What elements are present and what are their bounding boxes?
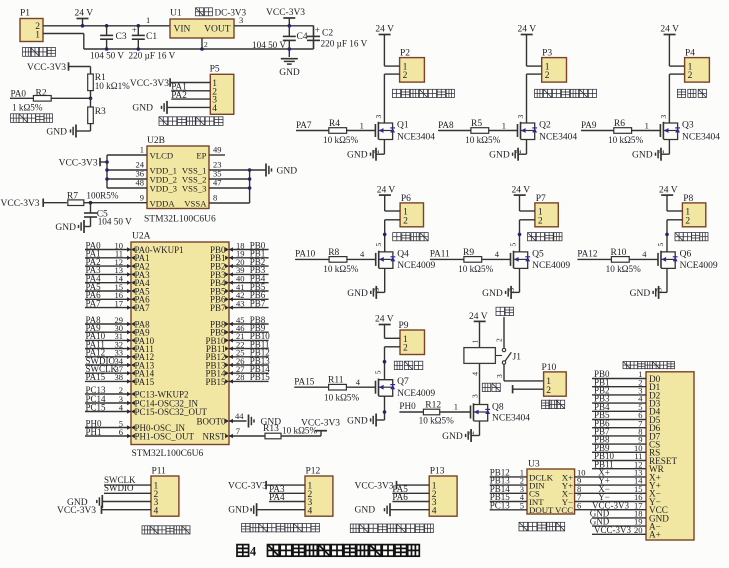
ground (Q5) — [482, 286, 511, 299]
svg-text:Q5: Q5 — [532, 249, 544, 259]
power VCC-3V3 (P13 pin1) — [355, 481, 430, 492]
svg-text:R6: R6 — [614, 119, 625, 129]
resistor R13 — [263, 424, 321, 439]
wire P4 pin2 to Q3 drain — [659, 74, 685, 123]
svg-text:1 kΩ5%: 1 kΩ5% — [12, 103, 43, 113]
wire net PA4 to P12 pin3 — [269, 492, 305, 502]
svg-text:2: 2 — [495, 338, 504, 342]
wire net PB1 to LCD pin 2 — [592, 377, 646, 387]
wire P3 pin1 — [527, 65, 542, 67]
svg-text:VCC: VCC — [555, 505, 573, 515]
svg-text:U3: U3 — [528, 460, 540, 470]
wire net PB12 to U3 pin 1 — [490, 468, 527, 478]
connector P11 — [151, 467, 179, 517]
wire Q7 source — [376, 396, 386, 420]
svg-text:GND: GND — [489, 151, 510, 161]
wire Q6 source — [655, 268, 668, 292]
svg-text:BOOT0: BOOT0 — [197, 416, 226, 426]
wire net PH0 to R12 — [399, 401, 423, 412]
wire net PA8 to R5 — [438, 120, 471, 131]
svg-text:10 kΩ5%: 10 kΩ5% — [323, 264, 358, 274]
svg-text:Q1: Q1 — [397, 121, 409, 131]
wire P6 pin1 — [385, 210, 400, 212]
wire net PA8 to U2A pin 29 — [85, 315, 135, 326]
svg-text:VIN: VIN — [174, 25, 191, 35]
svg-text:PC15-OSC32_OUT: PC15-OSC32_OUT — [135, 407, 208, 417]
svg-text:PA7: PA7 — [296, 120, 312, 130]
wire U3 Y+ to LCD pin 14 — [575, 476, 646, 486]
svg-text:4: 4 — [471, 372, 480, 376]
svg-text:R2: R2 — [36, 89, 47, 99]
caption 图4 盐酸氨气试验箱电路原理图 — [237, 544, 419, 558]
label 湿度传感器 — [11, 114, 53, 123]
wire net VCC-3V3 to LCD pin 20 — [592, 525, 646, 535]
resistor R5 — [465, 119, 517, 145]
transistor Q4 NCE4009 — [376, 249, 436, 271]
svg-text:GND: GND — [347, 151, 368, 161]
resistor R12 — [419, 400, 471, 425]
wire net PA1 to U2A pin 11 — [85, 249, 135, 260]
svg-text:5: 5 — [656, 243, 665, 247]
wire net PA5 to U2A pin 15 — [85, 282, 135, 293]
svg-text:VSSA: VSSA — [184, 198, 207, 208]
capacitor C4 — [252, 26, 308, 50]
transistor Q1 NCE3404 — [375, 121, 435, 143]
svg-text:NCE4009: NCE4009 — [680, 261, 718, 271]
wire net PB7 from U2A pin 43 — [225, 298, 269, 309]
svg-text:NCE3404: NCE3404 — [682, 132, 720, 142]
wire PA1 to P5 pin2 — [171, 82, 210, 92]
wire U1 VOUT to VCC rail — [234, 26, 314, 49]
svg-text:NRST: NRST — [202, 431, 226, 441]
svg-text:104 50 V: 104 50 V — [98, 216, 132, 226]
ground (R3) — [46, 125, 90, 138]
svg-text:4: 4 — [642, 249, 647, 259]
svg-text:GND: GND — [347, 416, 368, 426]
svg-text:P11: P11 — [152, 467, 167, 477]
svg-text:R12: R12 — [425, 400, 441, 410]
transistor Q3 NCE3404 — [660, 121, 720, 143]
svg-text:P4: P4 — [685, 49, 695, 59]
wire net PB8 from U2A pin 45 — [225, 315, 269, 326]
wire net PA6 to P13 pin3 — [392, 492, 429, 502]
svg-text:10 kΩ5%: 10 kΩ5% — [323, 135, 358, 145]
wire Q3 source — [657, 140, 670, 155]
wire Q4 source — [372, 268, 385, 292]
wire net GND to LCD pin 19 — [590, 517, 646, 527]
svg-text:2: 2 — [538, 216, 543, 226]
svg-text:1: 1 — [360, 120, 364, 130]
svg-text:24 V: 24 V — [659, 186, 678, 196]
wire VCC rail to U2B VDD pins — [105, 155, 147, 188]
svg-text:R4: R4 — [329, 119, 340, 129]
transistor Q5 NCE4009 — [511, 249, 571, 271]
wire P3 pin2 to Q2 drain — [516, 74, 542, 123]
svg-text:PH1-OSC_OUT: PH1-OSC_OUT — [135, 431, 195, 441]
svg-text:J1: J1 — [513, 353, 522, 363]
power VCC-3V3 (R1) — [27, 62, 91, 73]
connector P6 — [400, 194, 423, 227]
svg-text:1: 1 — [471, 340, 480, 344]
power VCC-3V3 (U2B) — [59, 158, 107, 169]
svg-text:U1: U1 — [170, 9, 182, 19]
wire net PA11 to R9 — [430, 249, 464, 260]
wire net PB11 from U2A pin 22 — [225, 339, 269, 350]
ground main GND — [279, 49, 300, 78]
svg-text:2: 2 — [685, 216, 690, 226]
connector P12 — [305, 467, 333, 517]
svg-text:VOUT: VOUT — [204, 25, 231, 35]
wire net GND to LCD pin 18 — [590, 509, 646, 519]
wire Q2 source — [514, 140, 527, 155]
wire net PB4 to LCD pin 5 — [592, 402, 646, 412]
transistor Q8 NCE3404 — [471, 402, 531, 423]
svg-text:GND: GND — [632, 151, 653, 161]
wire U3 X− to LCD pin 15 — [575, 484, 646, 494]
svg-text:VCC-3V3: VCC-3V3 — [27, 63, 66, 73]
wire U2A BOOT0 pin 44 to ground — [225, 411, 246, 423]
svg-text:220 µF 16 V: 220 µF 16 V — [321, 38, 368, 48]
junction dots top rail — [81, 24, 140, 28]
svg-text:EP: EP — [196, 150, 206, 160]
svg-text:PA10: PA10 — [295, 249, 315, 259]
svg-text:3: 3 — [471, 394, 480, 398]
svg-text:R5: R5 — [471, 119, 482, 129]
svg-text:GND: GND — [482, 289, 503, 299]
label 盐酸浓度传感器模块 — [350, 524, 433, 533]
switch J1 — [495, 348, 521, 364]
svg-text:PA15: PA15 — [135, 377, 155, 387]
svg-text:+: + — [132, 25, 137, 35]
relay coil K1 — [464, 348, 496, 364]
svg-text:VSS_3: VSS_3 — [182, 183, 207, 193]
svg-text:P12: P12 — [306, 467, 321, 477]
svg-text:2: 2 — [403, 216, 408, 226]
svg-text:1: 1 — [140, 145, 144, 155]
resistor R2 (PA0) — [10, 88, 91, 112]
svg-text:10 kΩ5%: 10 kΩ5% — [465, 135, 500, 145]
label 火线 — [496, 307, 514, 315]
svg-text:4: 4 — [154, 506, 159, 516]
ground (Q4) — [347, 286, 376, 299]
wire net PB5 to LCD pin 6 — [592, 410, 646, 420]
svg-text:PA7: PA7 — [135, 303, 151, 313]
wire U3 X+ to LCD pin 13 — [575, 468, 646, 478]
label 程序烧录接口 — [142, 526, 190, 534]
label 氨气浓度传感器模块 — [242, 524, 320, 532]
svg-text:PA15: PA15 — [294, 377, 314, 387]
svg-text:VDDA: VDDA — [150, 198, 176, 208]
power 24V (P8) — [659, 186, 678, 211]
svg-text:3: 3 — [516, 115, 525, 119]
svg-text:P1: P1 — [20, 9, 30, 19]
svg-text:VDD_3: VDD_3 — [150, 183, 178, 193]
svg-text:GND: GND — [279, 68, 300, 78]
wire Q8 source — [467, 421, 480, 436]
svg-text:P10: P10 — [542, 363, 557, 373]
wire net PB6 to LCD pin 7 — [592, 418, 646, 428]
wire U3 VCC / VCC-3V3 to LCD pin 17 — [575, 500, 646, 510]
svg-text:VCC-3V3: VCC-3V3 — [1, 199, 40, 209]
IC U2A STM32L100C6U6 (MCU) — [131, 232, 229, 460]
svg-text:10 kΩ1%: 10 kΩ1% — [95, 81, 130, 91]
svg-text:24 V: 24 V — [375, 314, 394, 324]
capacitor C1 — [129, 25, 176, 61]
capacitor C3 — [90, 26, 127, 61]
svg-text:U2B: U2B — [147, 136, 165, 146]
connector P3 — [542, 49, 567, 83]
svg-text:PA9: PA9 — [581, 120, 597, 130]
wire net PA0 to U2A pin 10 — [85, 240, 135, 251]
svg-text:4: 4 — [360, 249, 365, 259]
svg-text:GND: GND — [277, 166, 298, 176]
wire net PB14 to U3 pin 3 — [490, 484, 527, 494]
wire P2 pin2 to Q1 drain — [374, 74, 400, 123]
label 触摸屏芯片 — [519, 522, 565, 531]
wire net PA2 to U2A pin 12 — [85, 257, 135, 268]
wire net PB11 to LCD pin 12 — [592, 459, 646, 469]
wire P8 pin2 to Q6 drain — [656, 220, 682, 252]
wire net PB2 from U2A pin 20 — [225, 257, 269, 268]
svg-text:1: 1 — [645, 120, 649, 130]
svg-text:3: 3 — [374, 115, 383, 119]
svg-text:U2A: U2A — [132, 232, 151, 242]
power VCC-3V3 (P5 pin1) — [130, 78, 210, 89]
ground (P12 pin4) — [228, 503, 305, 516]
power VCC-3V3 (R7) — [1, 199, 67, 209]
svg-text:STM32L100C6U6: STM32L100C6U6 — [144, 215, 216, 225]
svg-text:VCC-3V3: VCC-3V3 — [130, 79, 169, 89]
wire P9 pin2 to Q7 drain — [374, 347, 400, 380]
svg-text:GND: GND — [630, 289, 651, 299]
transistor Q2 NCE3404 — [518, 121, 578, 143]
connector P13 — [429, 467, 457, 517]
svg-text:PA11: PA11 — [430, 249, 450, 259]
svg-text:PB15: PB15 — [205, 377, 226, 387]
ground (U2B VSS) — [266, 164, 297, 177]
wire net PB15 to U3 pin 4 — [490, 492, 527, 502]
svg-text:24 V: 24 V — [377, 186, 396, 196]
IC U2B STM32L100C6U6 (power pins) — [144, 136, 216, 225]
resistor R9 — [458, 248, 510, 274]
svg-text:Q4: Q4 — [397, 249, 409, 259]
wire 24V top rail — [43, 25, 170, 27]
svg-text:2: 2 — [546, 386, 551, 396]
power 24V (P6) — [377, 186, 396, 211]
ground (C5) — [55, 220, 90, 233]
svg-text:PA8: PA8 — [438, 120, 454, 130]
wire net PA9 to R6 — [581, 120, 614, 131]
wire net PC15 to U2A pin 4 — [85, 402, 135, 413]
wire net PB8 to LCD pin 9 — [592, 435, 646, 445]
wire net PB5 from U2A pin 41 — [225, 282, 269, 293]
wire net PA12 to U2A pin 33 — [85, 348, 135, 359]
svg-text:1: 1 — [454, 402, 458, 412]
power VCC-3V3 top — [266, 8, 305, 28]
wire net PB14 from U2A pin 27 — [225, 364, 270, 375]
connector P1 (power input) — [20, 9, 43, 42]
svg-text:3: 3 — [659, 115, 668, 119]
label 电源输入 — [23, 48, 56, 57]
wire net PA5 to P13 pin2 — [392, 484, 429, 494]
svg-text:4: 4 — [356, 377, 361, 387]
connector P10 — [542, 363, 567, 396]
wire P9 pin1 — [385, 337, 401, 339]
power VCC-3V3 (P12 pin1) — [228, 481, 305, 492]
wire U2A NRST pin 7 — [225, 426, 265, 438]
power 24V (relay) — [469, 312, 488, 348]
wire net PB10 from U2A pin 21 — [225, 331, 270, 342]
svg-text:24 V: 24 V — [512, 186, 531, 196]
junction dots bottom rail — [105, 47, 291, 51]
svg-text:2: 2 — [403, 71, 408, 81]
wire net PB3 from U2A pin 39 — [225, 265, 269, 276]
svg-text:3: 3 — [495, 374, 504, 378]
svg-text:1: 1 — [146, 15, 150, 25]
wire net PC14 to U2A pin 3 — [85, 394, 135, 405]
svg-text:NCE3404: NCE3404 — [539, 132, 577, 142]
svg-text:4: 4 — [308, 506, 313, 516]
connector P7 — [535, 194, 558, 227]
wire net PB1 from U2A pin 19 — [225, 249, 269, 260]
wire net PH0 to U2A pin 5 — [85, 418, 135, 429]
wire P8 pin1 — [667, 210, 682, 212]
power 24V (P3) — [518, 25, 537, 67]
svg-text:24 V: 24 V — [660, 25, 679, 35]
wire net PB9 to LCD pin 10 — [592, 443, 646, 453]
capacitor C5 — [84, 203, 132, 227]
ground (Q8) — [442, 429, 471, 442]
svg-text:44: 44 — [235, 411, 244, 421]
svg-text:2: 2 — [204, 40, 208, 49]
power 24V (P2) — [375, 25, 394, 67]
svg-text:PA4: PA4 — [269, 492, 285, 502]
svg-text:P9: P9 — [399, 321, 409, 331]
svg-text:R10: R10 — [611, 248, 627, 258]
svg-text:PC13: PC13 — [490, 500, 511, 510]
connector P8 — [682, 194, 705, 227]
ground (Q6) — [630, 286, 659, 299]
svg-text:PB7: PB7 — [210, 303, 226, 313]
wire net PA15 to R11 — [294, 377, 328, 388]
wire Q1 source — [372, 140, 385, 155]
resistor R6 — [608, 119, 660, 145]
svg-text:Q6: Q6 — [680, 249, 692, 259]
label 氨气气体电磁阀 — [535, 89, 597, 97]
connector P4 — [685, 49, 710, 83]
label 加湿器 — [677, 89, 706, 97]
wire P7 pin2 to Q5 drain — [509, 220, 535, 252]
svg-text:GND: GND — [46, 127, 67, 137]
svg-text:P13: P13 — [430, 467, 445, 477]
svg-text:GND: GND — [347, 289, 368, 299]
wire net PB7 to LCD pin 8 — [592, 427, 646, 437]
wire net PB9 from U2A pin 46 — [225, 323, 269, 334]
wire net PB4 from U2A pin 40 — [225, 274, 269, 285]
wire net PA6 to U2A pin 16 — [85, 290, 135, 301]
label 零线 — [482, 383, 500, 391]
svg-text:1: 1 — [35, 31, 40, 41]
wire relay to Q8 drain — [471, 363, 480, 404]
svg-text:NCE3404: NCE3404 — [492, 414, 530, 424]
svg-text:PA6: PA6 — [392, 492, 408, 502]
svg-text:5: 5 — [509, 243, 518, 247]
svg-text:P3: P3 — [542, 49, 552, 59]
svg-text:P7: P7 — [536, 194, 546, 204]
svg-text:24 V: 24 V — [375, 25, 394, 35]
svg-text:P6: P6 — [401, 194, 411, 204]
power VCC-3V3 (R13) — [301, 418, 340, 436]
svg-text:DOUT: DOUT — [529, 505, 554, 515]
ground (Q1) — [347, 148, 376, 161]
label 排风风扇 — [675, 233, 708, 241]
resistor R7 — [67, 190, 147, 205]
power 24V — [75, 8, 94, 26]
wire net PB10 to LCD pin 11 — [592, 451, 646, 461]
resistor R4 — [323, 119, 375, 145]
wire net PB2 to LCD pin 3 — [592, 386, 646, 396]
svg-text:PA0: PA0 — [11, 88, 27, 98]
svg-text:7: 7 — [236, 426, 240, 436]
svg-text:2: 2 — [545, 71, 550, 81]
svg-text:VCC-3V3: VCC-3V3 — [301, 418, 340, 428]
wire live to J1 contact 2 — [495, 317, 505, 348]
resistor R11 — [324, 376, 376, 403]
wire P7 pin1 — [520, 210, 535, 212]
svg-text:VLCD: VLCD — [150, 150, 174, 160]
wire PA2 to P5 pin3 — [171, 90, 210, 100]
svg-text:4: 4 — [250, 544, 256, 558]
svg-text:NCE3404: NCE3404 — [397, 132, 435, 142]
svg-text:R7: R7 — [67, 191, 78, 201]
wire net PH1 to U2A pin 6 — [85, 427, 135, 438]
svg-text:P2: P2 — [400, 49, 410, 59]
wire net PA4 to U2A pin 14 — [85, 274, 135, 285]
svg-text:2: 2 — [403, 344, 408, 354]
wire net SWDIO to P11 pin2 — [104, 483, 151, 493]
resistor R1 — [88, 67, 130, 99]
wire net PB15 from U2A pin 28 — [225, 372, 270, 383]
svg-text:VCC-3V3: VCC-3V3 — [355, 482, 394, 492]
svg-text:104 50 V: 104 50 V — [252, 40, 286, 50]
power 24V (P4) — [660, 25, 679, 67]
svg-text:5: 5 — [374, 243, 383, 247]
power 24V (P7) — [512, 186, 531, 211]
ground (BOOT0) — [249, 415, 282, 428]
ground (P11 pin3) — [67, 495, 151, 508]
svg-text:GND: GND — [228, 506, 249, 516]
wire net PB0 from U2A pin 18 — [225, 240, 269, 251]
wire net PC13 to U3 pin 5 — [490, 500, 527, 510]
wire P4 pin1 — [669, 65, 684, 67]
power VCC-3V3 (P11 pin4) — [57, 506, 151, 517]
svg-text:24 V: 24 V — [75, 8, 94, 18]
svg-text:Q3: Q3 — [682, 121, 694, 131]
svg-text:C4: C4 — [297, 32, 308, 42]
wire net PA9 to U2A pin 30 — [85, 323, 135, 334]
node R7-C5 junction — [89, 201, 93, 205]
label 进风风扇 — [393, 233, 429, 241]
wire net PB12 from U2A pin 25 — [225, 348, 270, 359]
LCD module (液晶屏接触摸屏) — [623, 362, 694, 541]
svg-text:2: 2 — [688, 71, 693, 81]
svg-text:VCC-3V3: VCC-3V3 — [59, 159, 98, 169]
svg-text:24 V: 24 V — [469, 312, 488, 322]
regulator U1 稳压DC-3V3 — [146, 7, 247, 49]
wire net PB13 to U3 pin 2 — [490, 476, 527, 486]
wire net PA3 to P12 pin2 — [269, 484, 305, 494]
svg-text:10 kΩ5%: 10 kΩ5% — [458, 264, 493, 274]
